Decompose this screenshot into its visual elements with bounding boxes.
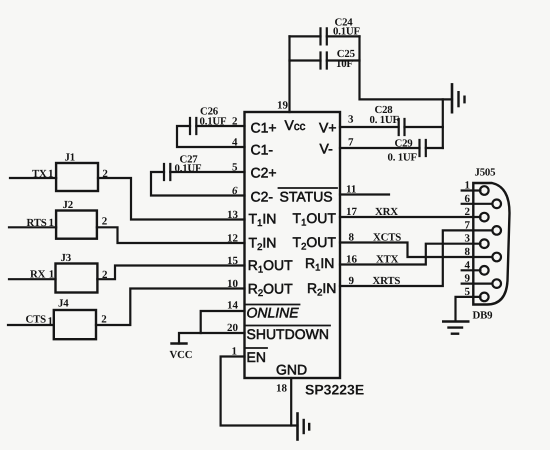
svg-text:R2IN: R2IN: [307, 280, 336, 299]
capacitor C27 loop pins 5-6: [170, 171, 244, 173]
svg-text:GND: GND: [276, 361, 307, 377]
svg-text:9: 9: [465, 273, 471, 285]
DB9 pin circle 5: [480, 293, 489, 302]
svg-text:T2OUT: T2OUT: [293, 234, 337, 253]
svg-text:18: 18: [276, 383, 288, 395]
svg-text:8: 8: [349, 231, 355, 243]
capacitor C29: [420, 140, 426, 156]
wire J4 pin2 to IC pin10: [96, 289, 245, 326]
svg-text:2: 2: [232, 115, 238, 127]
svg-text:RX: RX: [30, 269, 46, 281]
wire pin18 GND down: [290, 378, 292, 426]
DB9 stub pin6: [462, 203, 493, 205]
svg-text:0.1UF: 0.1UF: [175, 163, 202, 175]
DB9 pin circle 9: [492, 279, 501, 288]
wire pin11 STATUS stub: [340, 193, 389, 195]
DB9 pin circle 2: [480, 213, 489, 222]
svg-text:5: 5: [232, 161, 238, 173]
svg-text:T2IN: T2IN: [249, 234, 277, 253]
wire right vertical of C24/C25 to ground row: [360, 36, 453, 99]
svg-text:15: 15: [227, 255, 239, 267]
svg-text:RTS: RTS: [27, 217, 47, 229]
svg-text:2: 2: [102, 269, 108, 281]
svg-text:2: 2: [102, 216, 108, 228]
svg-text:8: 8: [465, 246, 471, 258]
overline STATUS: [279, 187, 338, 189]
svg-text:13: 13: [227, 209, 239, 221]
svg-text:16: 16: [346, 253, 358, 265]
DB9 pin circle 4: [480, 266, 489, 275]
svg-text:C29: C29: [395, 137, 414, 149]
overline EN: [246, 347, 267, 349]
svg-text:XCTS: XCTS: [373, 231, 401, 243]
svg-text:R1IN: R1IN: [305, 255, 334, 274]
wire pin17 T1OUT XRX to DB9 pin2: [340, 216, 480, 218]
wire C24 row left: [290, 35, 321, 37]
svg-text:0. 1UF: 0. 1UF: [388, 152, 418, 164]
wire C24 row right: [327, 35, 360, 37]
svg-text:J505: J505: [475, 167, 496, 179]
wire pin19 vertical Vcc: [288, 36, 290, 112]
wire J3 pin1: [9, 278, 56, 280]
wire J2 pin1: [9, 226, 56, 228]
overline SHUTDOWN: [246, 325, 330, 327]
svg-text:10F: 10F: [336, 58, 353, 70]
wire pin20 SHUTDOWN to VCC: [179, 333, 245, 344]
DB9 stub pin4: [462, 269, 481, 271]
svg-text:DB9: DB9: [473, 310, 494, 322]
wire J1 pin2 to IC pin13: [98, 178, 245, 220]
svg-text:1: 1: [49, 217, 55, 229]
capacitor C25: [321, 53, 327, 69]
VCC supply bar: [172, 342, 187, 344]
svg-text:SP3223E: SP3223E: [305, 382, 364, 398]
svg-text:R2OUT: R2OUT: [248, 280, 293, 299]
svg-text:V+: V+: [319, 120, 337, 136]
svg-text:5: 5: [465, 286, 471, 298]
svg-text:Vcc: Vcc: [285, 117, 306, 133]
op-amp U1 IC body SP3223E: [245, 112, 341, 378]
wire J1 pin1: [10, 177, 56, 179]
wire pin14 ONLINE: [201, 311, 245, 333]
svg-text:EN: EN: [247, 349, 266, 365]
svg-text:20: 20: [227, 322, 239, 334]
svg-text:2: 2: [101, 314, 107, 326]
ground below DB9: [443, 320, 468, 323]
svg-text:XTX: XTX: [376, 253, 399, 265]
svg-text:3: 3: [348, 114, 354, 126]
wire J2 pin2 to IC pin12: [97, 227, 245, 243]
svg-text:0. 1UF: 0. 1UF: [370, 114, 400, 126]
svg-text:0.1UF: 0.1UF: [333, 26, 360, 38]
svg-text:2: 2: [102, 168, 108, 180]
svg-text:19: 19: [277, 100, 289, 112]
svg-text:10: 10: [227, 278, 239, 290]
svg-text:J3: J3: [61, 252, 72, 264]
connector J1 box: [56, 163, 98, 191]
svg-text:4: 4: [232, 136, 238, 148]
svg-text:XRTS: XRTS: [373, 275, 401, 287]
wire C25 row left: [290, 59, 321, 61]
svg-text:C2+: C2+: [251, 164, 277, 180]
svg-text:C2-: C2-: [251, 188, 274, 204]
wire pin1 EN down and right: [221, 357, 298, 426]
svg-text:ONLINE: ONLINE: [247, 305, 300, 321]
svg-text:T1IN: T1IN: [249, 211, 277, 230]
svg-text:4: 4: [465, 259, 471, 271]
DB9 pin circle 8: [492, 253, 501, 262]
svg-text:7: 7: [465, 219, 471, 231]
DB9 pin circle 1: [480, 186, 489, 195]
svg-text:T1OUT: T1OUT: [293, 210, 337, 229]
DB9 stub pin9: [462, 283, 493, 285]
svg-text:7: 7: [348, 137, 354, 149]
wire pin16 R1IN XTX to DB9 pin3: [340, 244, 480, 265]
capacitor C24: [321, 28, 327, 44]
svg-text:J2: J2: [63, 199, 73, 211]
connector J4 box: [54, 310, 96, 339]
svg-text:J1: J1: [65, 152, 75, 164]
svg-text:11: 11: [346, 183, 356, 195]
svg-text:VCC: VCC: [170, 349, 193, 361]
wire J3 pin2 to IC pin15: [97, 266, 244, 280]
svg-text:CTS: CTS: [26, 314, 47, 326]
svg-text:6: 6: [232, 185, 238, 197]
svg-text:0.1UF: 0.1UF: [200, 116, 227, 128]
wire pin3 V+ row: [340, 126, 399, 128]
svg-text:1: 1: [48, 315, 54, 327]
DB9 pin circle 7: [492, 226, 501, 235]
wire pin7 V- row: [340, 147, 420, 149]
DB9 stub pin5 to ground: [456, 297, 481, 321]
svg-text:C1-: C1-: [251, 141, 274, 157]
svg-text:3: 3: [465, 233, 471, 245]
svg-text:1: 1: [49, 269, 55, 281]
svg-text:SHUTDOWN: SHUTDOWN: [247, 326, 329, 342]
svg-text:2: 2: [465, 206, 471, 218]
wire pin8 T2OUT XCTS to DB9 pin8: [340, 243, 492, 258]
svg-text:1: 1: [48, 168, 54, 180]
svg-text:STATUS: STATUS: [280, 189, 333, 205]
svg-text:6: 6: [465, 193, 471, 205]
svg-text:V-: V-: [320, 141, 334, 157]
svg-text:R1OUT: R1OUT: [248, 257, 293, 276]
DB9 pin circle 3: [480, 239, 489, 248]
wire pin9 R2IN XRTS to DB9 pin7: [340, 230, 492, 286]
wire C25 row right: [327, 59, 360, 61]
svg-text:17: 17: [346, 206, 358, 218]
wire J4 pin1: [8, 324, 54, 326]
connector J3 box: [56, 264, 98, 293]
svg-text:XRX: XRX: [375, 206, 398, 218]
capacitor C28: [399, 119, 405, 135]
svg-text:14: 14: [227, 300, 239, 312]
svg-text:9: 9: [349, 275, 355, 287]
capacitor C26 loop pins 2-4: [196, 125, 244, 127]
svg-text:1: 1: [465, 180, 471, 192]
svg-text:TX: TX: [32, 168, 47, 180]
svg-text:C1+: C1+: [251, 120, 277, 136]
DB9 stub pin1: [462, 189, 481, 191]
svg-text:J4: J4: [58, 298, 69, 310]
ground bottom sideways: [296, 414, 299, 440]
ground top-right sideways: [451, 84, 454, 112]
svg-text:1: 1: [232, 346, 238, 358]
wire vertical joining ground, C28 out, C29 out: [442, 99, 444, 148]
DB9 pin circle 6: [492, 200, 501, 209]
connector J505 DB9 shell: [473, 183, 509, 305]
svg-text:12: 12: [227, 232, 239, 244]
overline ONLINE: [246, 304, 300, 306]
connector J2 box: [56, 211, 97, 239]
